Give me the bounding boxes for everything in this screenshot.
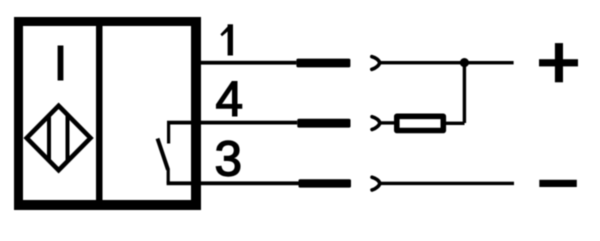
connector contact bar pin3 — [299, 179, 352, 187]
plug chevron pin4 — [372, 117, 380, 130]
pin label 1 — [220, 24, 233, 55]
sensor housing box — [14, 17, 201, 210]
minus terminal — [539, 180, 577, 187]
wire plug to load — [380, 121, 396, 124]
svg-text:3: 3 — [215, 132, 243, 187]
diamond right chord — [66, 115, 70, 162]
switch bottom riser — [167, 169, 170, 183]
switch blade — [158, 139, 169, 170]
svg-text:4: 4 — [216, 72, 244, 127]
wire pin1 to plus — [380, 61, 514, 64]
plug chevron pin1 — [372, 57, 380, 70]
wire pin1 to connector — [201, 61, 296, 65]
housing divider wall — [96, 17, 103, 210]
coil bar I — [58, 46, 64, 81]
switch fixed contact — [167, 123, 170, 144]
connector contact bar pin4 — [297, 119, 350, 128]
riser wire junction to load — [463, 63, 466, 123]
wire load to riser — [444, 122, 465, 125]
wire pin4 to connector — [201, 121, 297, 125]
inductive sensor diamond — [27, 106, 91, 170]
connector contact bar pin1 — [296, 59, 350, 68]
junction node — [460, 58, 469, 67]
plug chevron pin3 — [372, 177, 380, 190]
plus terminal — [539, 43, 578, 82]
load resistor — [397, 116, 444, 130]
switch bottom lead — [167, 181, 201, 185]
switch top lead — [167, 121, 201, 125]
diamond left chord — [47, 115, 51, 160]
wire pin3 to connector — [201, 181, 299, 185]
wire pin3 to minus — [380, 182, 514, 185]
